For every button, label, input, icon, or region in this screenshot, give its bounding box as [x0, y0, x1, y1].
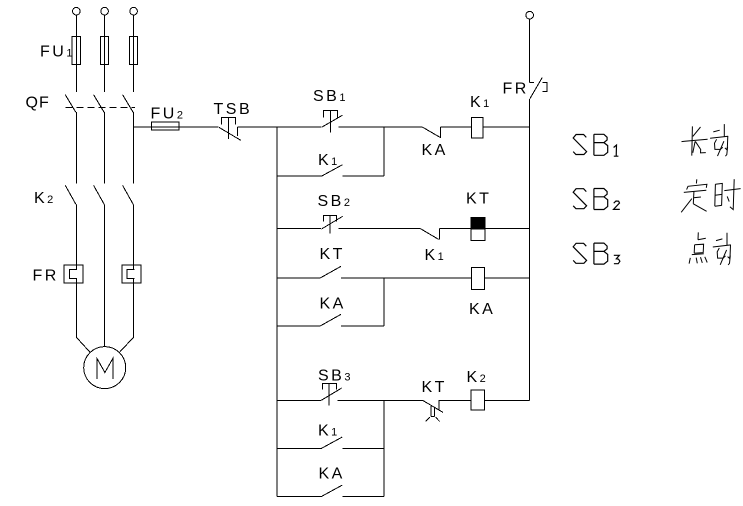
wire rowD bus to KT contact — [277, 277, 320, 279]
contact KA NO rowH blade — [322, 485, 343, 496]
legend hanzi dong row1 — [710, 124, 728, 156]
thermal contact FR NC blade — [530, 77, 542, 98]
right control bus — [529, 99, 531, 401]
wire rowH bus to KA contact — [277, 496, 322, 498]
wire rowB bus to K1 contact — [277, 175, 322, 177]
wire phase1 lower — [75, 205, 77, 270]
pushbutton TSB fixed tick — [236, 127, 238, 136]
left control bus — [276, 127, 278, 496]
wire control phase down — [529, 19, 531, 82]
terminal L3 — [130, 7, 138, 15]
wire rowF bus to SB3 — [277, 400, 321, 402]
wire phase3 mid — [133, 112, 135, 184]
breaker QF linkage dashed — [66, 106, 136, 108]
svg-text:KA: KA — [320, 296, 346, 313]
pushbutton SB3 blade — [321, 388, 342, 400]
contact KA NC rowA tick — [439, 127, 441, 138]
coil K2 — [471, 390, 485, 410]
thermal relay FR heater box pole1 — [64, 265, 83, 283]
legend hanzi ding — [681, 179, 707, 212]
legend hanzi chang — [682, 126, 708, 155]
svg-text:QF: QF — [26, 95, 50, 112]
wire phase1 mid — [75, 112, 77, 184]
svg-text:K2: K2 — [467, 369, 489, 386]
junction vertical rowA-rowB — [383, 127, 385, 176]
svg-text:K1: K1 — [318, 423, 340, 440]
terminal L1 — [73, 7, 81, 15]
svg-text:K2: K2 — [34, 190, 56, 207]
wire rowD KT to KA coil — [341, 277, 471, 279]
pushbutton TSB actuator — [222, 117, 236, 139]
legend hanzi dian — [689, 232, 707, 263]
wire rowE bus to KA contact — [277, 325, 320, 327]
wire rowH KA to junction — [342, 496, 384, 498]
wire phase1 top — [75, 15, 77, 92]
legend hanzi dong row3 — [713, 233, 731, 265]
contact K1 NO rowB blade — [322, 165, 343, 176]
thermal relay FR heater box pole3 — [122, 265, 141, 283]
svg-text:FR: FR — [33, 268, 59, 285]
contact KA NC rowA blade — [423, 127, 440, 137]
legend SB3 subscript 3 — [614, 255, 620, 263]
wire rowC SB2 to K1 — [339, 228, 421, 230]
svg-text:TSB: TSB — [214, 101, 253, 118]
svg-text:KA: KA — [319, 466, 345, 483]
wire phase3 slant to motor — [119, 337, 133, 352]
wire phase3 lower — [133, 205, 135, 270]
svg-text:SB3: SB3 — [318, 368, 353, 385]
pushbutton SB1 actuator — [323, 111, 337, 133]
svg-text:KT: KT — [422, 379, 447, 396]
terminal control phase — [526, 11, 534, 19]
svg-text:FR: FR — [503, 81, 529, 98]
thermal contact FR NC bracket — [543, 83, 547, 92]
legend SB2 B — [594, 189, 608, 210]
wire TSB to bus — [237, 126, 277, 128]
fuse FU1 pole3 — [130, 37, 138, 65]
svg-text:K1: K1 — [470, 94, 492, 111]
wire phase2 top — [104, 15, 106, 92]
wire rowA bus to SB1 — [277, 126, 321, 128]
wire rowC K1 to KT coil — [440, 228, 472, 230]
fuse FU1 pole2 — [101, 37, 109, 65]
wire FU2 branch — [134, 126, 219, 128]
coil KA — [472, 268, 485, 290]
wire phase1 below FR — [75, 279, 77, 338]
wire rowA SB1 to KA — [339, 126, 423, 128]
wire rowB K1 to junction — [342, 175, 384, 177]
pushbutton SB2 blade — [322, 216, 343, 229]
timer KT coil filled part — [471, 218, 485, 230]
contactor K2 pole1 blade — [65, 185, 76, 204]
pushbutton SB3 actuator — [322, 384, 336, 406]
wire rowE KA to junction — [341, 325, 384, 327]
legend hanzi shi — [715, 179, 741, 209]
legend SB1 subscript 1 — [614, 145, 619, 156]
contact K1 NC rowC tick — [439, 228, 441, 239]
svg-text:KA: KA — [469, 301, 495, 318]
motor M circle — [84, 347, 126, 389]
svg-text:KA: KA — [422, 142, 448, 159]
wire rowC KT to right bus — [485, 228, 530, 230]
contact KA NO rowE blade — [321, 314, 342, 326]
legend SB1 B — [594, 134, 608, 155]
svg-text:K1: K1 — [318, 152, 340, 169]
legend SB3 S — [573, 243, 586, 263]
svg-text:KT: KT — [320, 246, 345, 263]
timer KT coil open part — [471, 229, 485, 240]
wire rowA KA to coil K1 — [440, 126, 471, 128]
svg-text:SB1: SB1 — [313, 88, 348, 105]
contact KT NO rowD blade — [321, 266, 342, 278]
wire rowF KT to K2 coil — [439, 400, 471, 402]
FR heater element pole3 — [127, 270, 134, 279]
fuse FU2 — [152, 122, 179, 130]
wire rowG K1 to junction — [342, 447, 384, 449]
wire rowA coil K1 to right bus — [483, 126, 530, 128]
wire rowD KA coil to right bus — [485, 277, 530, 279]
contact KT delayed tick — [438, 400, 440, 410]
legend SB2 S — [573, 189, 586, 209]
wire phase1 slant to motor — [76, 337, 90, 352]
fuse FU1 pole1 — [72, 37, 80, 65]
legend SB1 S — [573, 135, 586, 155]
junction vertical rowF-rowH — [383, 401, 385, 497]
junction vertical rowD-rowE — [383, 278, 385, 326]
wire rowG bus to K1 contact — [277, 447, 322, 449]
coil K1 — [472, 118, 484, 139]
contact KT delay cup — [426, 406, 440, 422]
motor M letter — [97, 358, 113, 379]
legend SB3 B — [594, 243, 608, 264]
terminal L2 — [101, 7, 109, 15]
contactor K2 pole2 blade — [94, 185, 105, 204]
contact KT delayed NO blade — [422, 400, 443, 412]
contactor K2 pole3 blade — [123, 185, 134, 204]
wire phase2 lower — [104, 205, 106, 347]
svg-text:K1: K1 — [425, 247, 447, 264]
wire rowF K2 coil to right bus — [485, 400, 530, 402]
contact K1 NC rowC blade — [421, 229, 439, 240]
breaker QF pole3 blade — [123, 95, 134, 113]
wire phase3 top — [133, 15, 135, 92]
wire phase2 mid — [104, 112, 106, 184]
svg-text:FU1: FU1 — [40, 44, 75, 61]
wire phase3 below FR — [133, 279, 135, 338]
wire rowC bus to SB2 — [277, 228, 321, 230]
breaker QF pole1 blade — [65, 95, 76, 113]
contact K1 NO rowG blade — [322, 437, 343, 448]
wire rowF SB3 to KT contact — [337, 400, 422, 402]
pushbutton TSB blade — [219, 127, 241, 140]
svg-text:FU2: FU2 — [151, 106, 186, 123]
pushbutton SB2 actuator — [324, 215, 337, 233]
FR heater element pole1 — [70, 270, 77, 279]
svg-text:KT: KT — [466, 191, 491, 208]
thermal contact FR NC tick — [530, 81, 534, 83]
breaker QF pole2 blade — [94, 95, 105, 113]
pushbutton SB1 blade — [322, 115, 343, 127]
legend SB2 subscript 2 — [614, 201, 620, 209]
svg-text:SB2: SB2 — [318, 193, 353, 210]
